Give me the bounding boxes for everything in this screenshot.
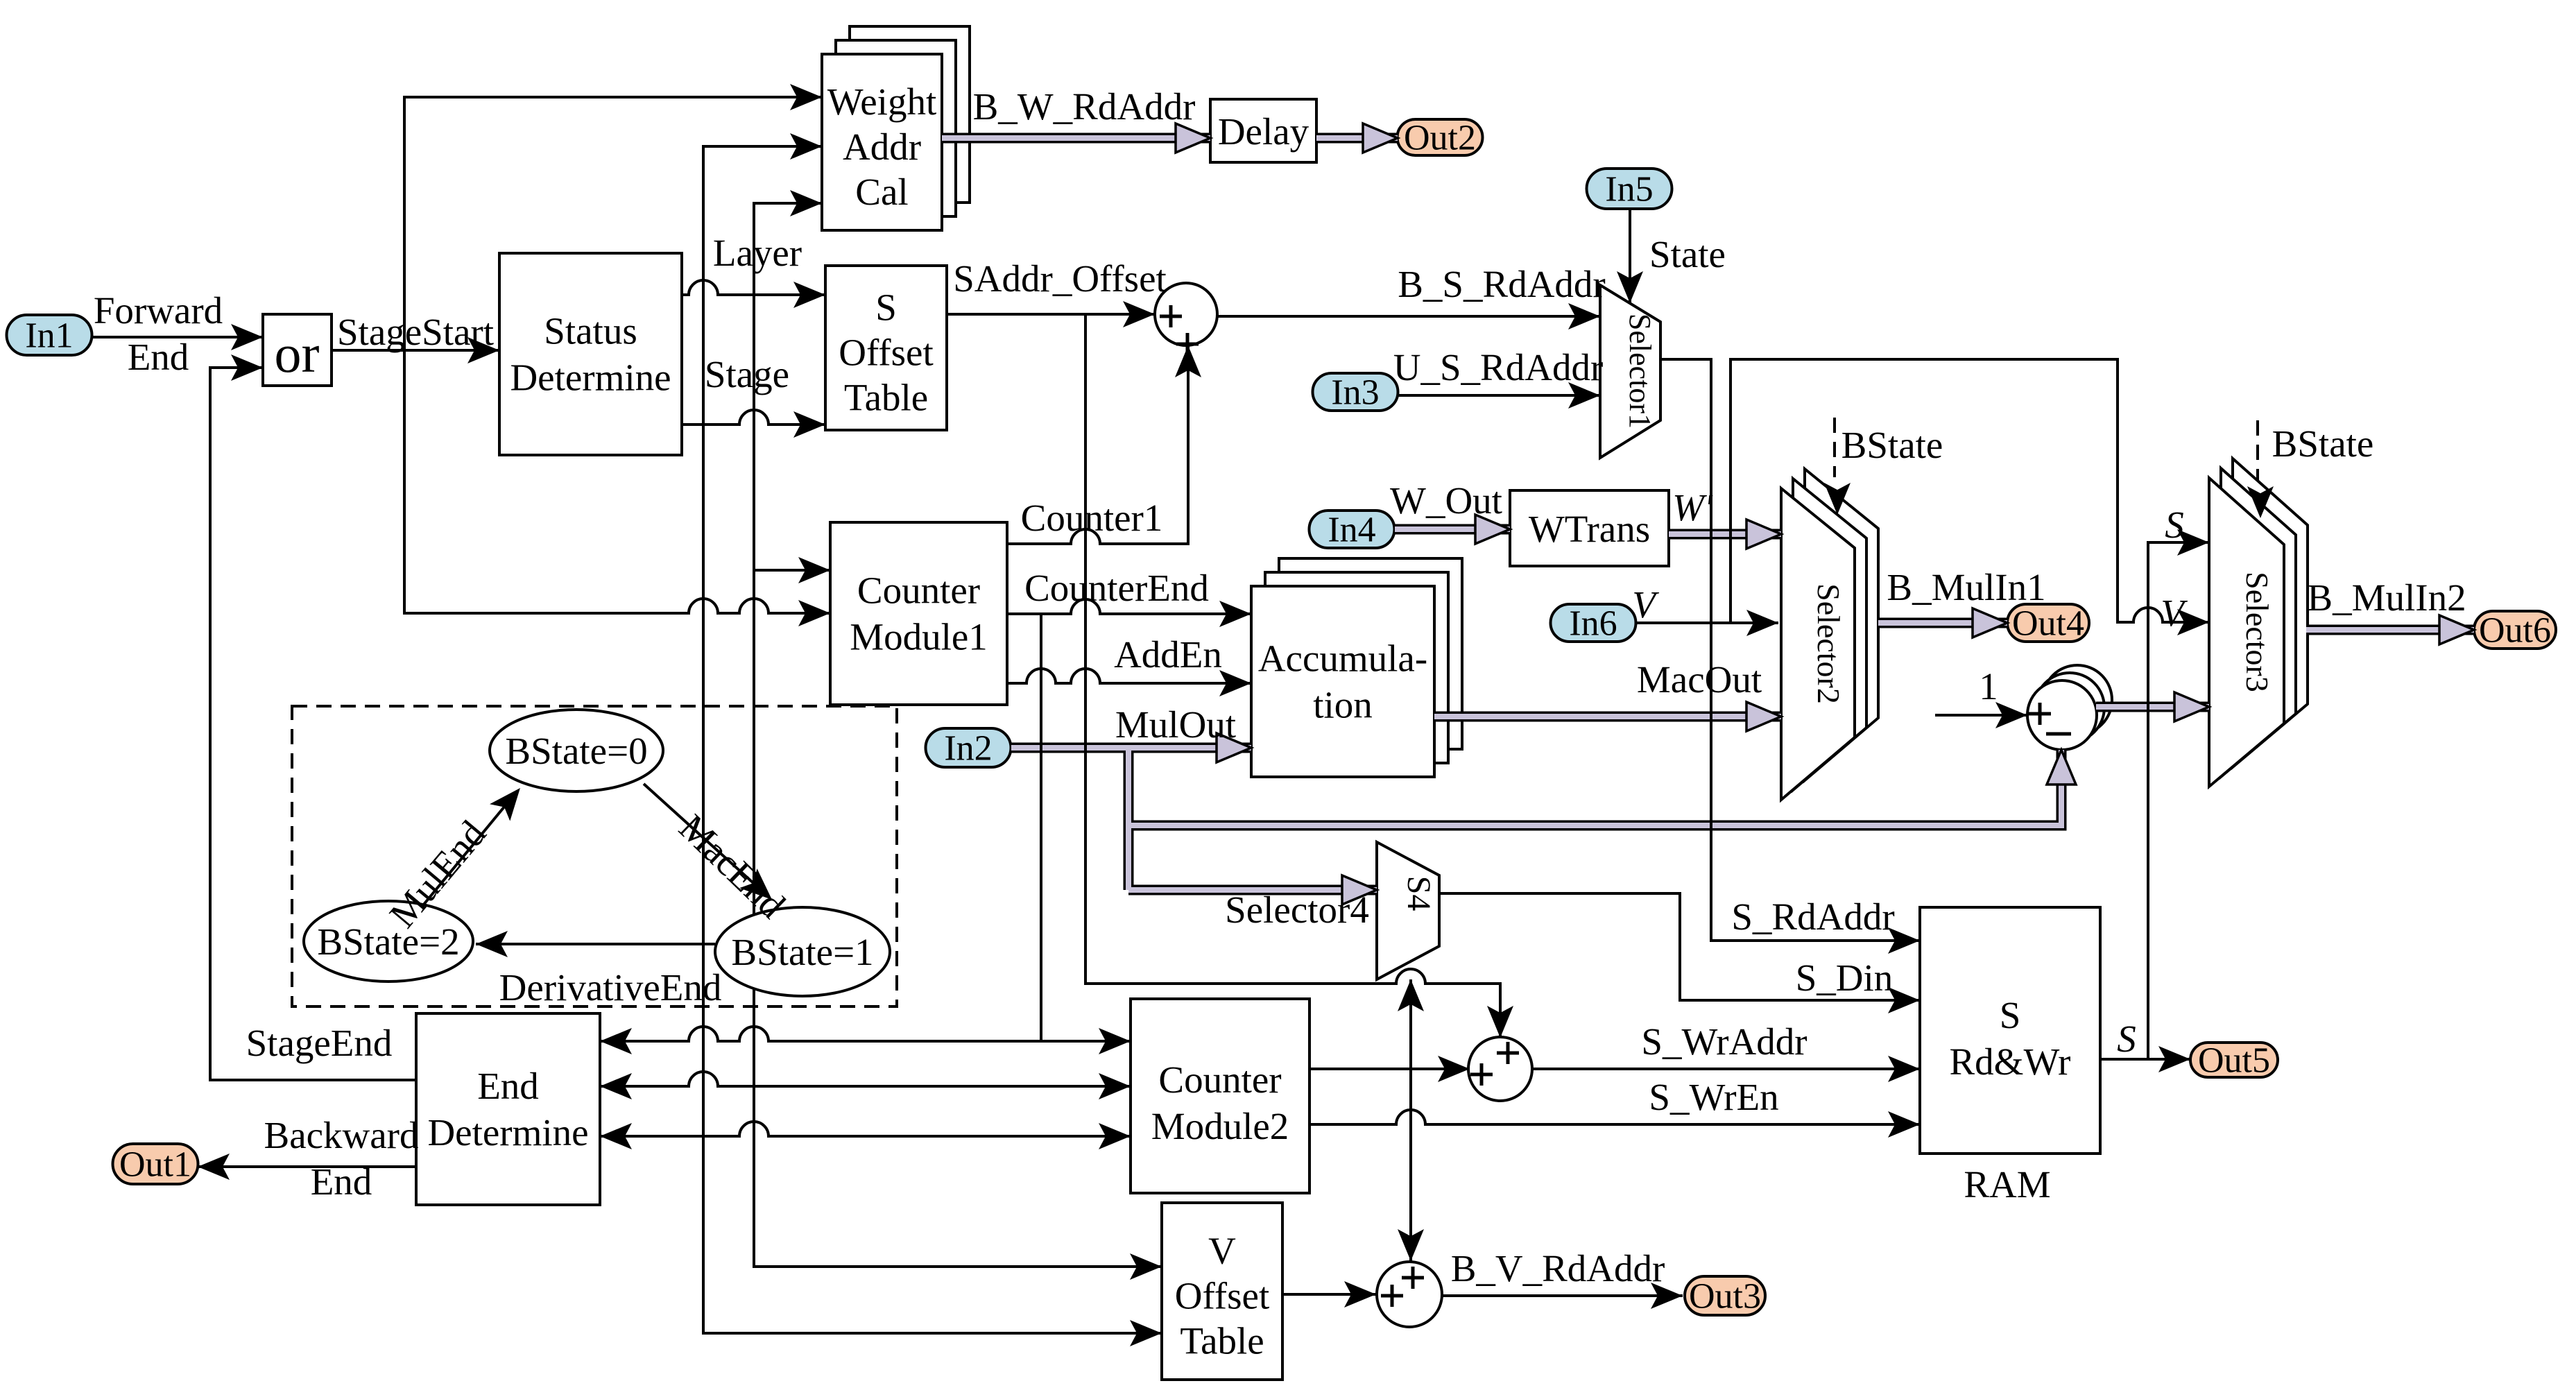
port In2 bbox=[926, 728, 1011, 769]
svg-text:Rd&Wr: Rd&Wr bbox=[1950, 1040, 2071, 1083]
port In6 bbox=[1551, 604, 1636, 644]
label Counter1 bbox=[1021, 497, 1163, 539]
svg-text:Table: Table bbox=[1180, 1320, 1264, 1362]
svg-text:DerivativeEnd: DerivativeEnd bbox=[499, 966, 722, 1009]
block or gate bbox=[263, 314, 332, 386]
label MulEnd bbox=[381, 812, 495, 935]
label StageStart bbox=[337, 311, 494, 353]
svg-text:Out1: Out1 bbox=[119, 1145, 191, 1185]
svg-text:BState=2: BState=2 bbox=[317, 920, 459, 963]
selector Selector3 (stacked) bbox=[2209, 458, 2308, 787]
svg-text:Counter: Counter bbox=[857, 569, 980, 612]
block WTrans bbox=[1510, 490, 1669, 566]
svg-text:Accumula-: Accumula- bbox=[1258, 637, 1427, 680]
port Out4 bbox=[2007, 604, 2089, 644]
label SAddr_Offset bbox=[953, 257, 1167, 300]
port In1 bbox=[7, 315, 92, 356]
label Backward End bbox=[264, 1114, 419, 1203]
wire SAddr_Offset (S Offset Table to adder) bbox=[947, 301, 1155, 327]
port Out5 bbox=[2190, 1041, 2278, 1081]
label DerivativeEnd bbox=[499, 966, 722, 1009]
svg-text:BState=0: BState=0 bbox=[505, 730, 647, 772]
wire S_WrAddr (adder to S Rd&Wr RAM) bbox=[1532, 1056, 1920, 1082]
svg-text:AddEn: AddEn bbox=[1114, 633, 1222, 676]
svg-text:End: End bbox=[477, 1065, 539, 1107]
svg-text:In3: In3 bbox=[1331, 373, 1379, 413]
port In4 bbox=[1310, 511, 1395, 550]
label W_Out bbox=[1390, 479, 1502, 522]
wire CounterEnd (Counter Module1 to Accumulation) bbox=[1007, 599, 1251, 627]
label State bbox=[1649, 233, 1726, 275]
label B_W_RdAddr bbox=[973, 85, 1196, 128]
svg-text:StageEnd: StageEnd bbox=[246, 1022, 393, 1064]
bus B_MulIn2 (Selector3 to Out6) bbox=[2306, 615, 2474, 644]
wire StageStart branch down to Counter Module1 in2 bbox=[404, 350, 830, 613]
svg-text:Delay: Delay bbox=[1218, 110, 1310, 153]
state BState=1 bbox=[715, 907, 890, 996]
label Layer bbox=[713, 232, 802, 274]
block S Offset Table bbox=[825, 266, 947, 430]
label B_MulIn2 bbox=[2307, 576, 2466, 619]
svg-text:Out2: Out2 bbox=[1404, 119, 1476, 158]
svg-text:V: V bbox=[1632, 583, 1659, 626]
port In5 bbox=[1587, 169, 1672, 209]
svg-text:W_Out: W_Out bbox=[1390, 479, 1502, 522]
svg-text:S: S bbox=[2165, 504, 2184, 546]
svg-text:V: V bbox=[2161, 592, 2188, 634]
state BState=2 bbox=[304, 901, 473, 982]
block Delay bbox=[1210, 99, 1316, 162]
svg-text:WTrans: WTrans bbox=[1529, 508, 1650, 550]
wire CounterEnd branch down to End Determine / Counter Module2 bbox=[1040, 614, 1042, 1041]
block V Offset Table bbox=[1162, 1203, 1282, 1380]
svg-text:S_WrEn: S_WrEn bbox=[1649, 1076, 1778, 1118]
svg-text:U_S_RdAddr: U_S_RdAddr bbox=[1393, 346, 1604, 388]
svg-text:S4: S4 bbox=[1400, 876, 1437, 911]
label Selector4 bbox=[1225, 889, 1369, 931]
adder S_WrAddr bbox=[1468, 1037, 1532, 1101]
label S near Selector3 bbox=[2165, 504, 2184, 546]
svg-text:BState: BState bbox=[2272, 422, 2374, 465]
svg-text:B_MulIn2: B_MulIn2 bbox=[2307, 576, 2466, 619]
svg-text:Selector3: Selector3 bbox=[2240, 572, 2275, 692]
wire S_RdAddr (Selector1 to S Rd&Wr RAM) bbox=[1660, 359, 1920, 954]
wire Layer (Status Determine to S Offset Table) bbox=[682, 280, 825, 308]
label S_WrAddr bbox=[1641, 1020, 1807, 1063]
subtractor (stacked) bbox=[2027, 665, 2112, 750]
svg-text:Out4: Out4 bbox=[2012, 604, 2084, 644]
svg-text:1: 1 bbox=[1979, 665, 1998, 708]
svg-text:Stage: Stage bbox=[705, 353, 789, 395]
svg-text:S_WrAddr: S_WrAddr bbox=[1641, 1020, 1807, 1063]
svg-text:In1: In1 bbox=[25, 316, 73, 356]
block End Determine bbox=[416, 1013, 600, 1205]
label V near Selector2 bbox=[1632, 583, 1659, 626]
wire Layer net vertical (to Weight Addr Cal in3, Counter Module1 in1, V Offset Table in1) bbox=[754, 190, 1162, 1280]
block Counter Module2 bbox=[1131, 999, 1310, 1193]
label B_V_RdAddr bbox=[1451, 1247, 1665, 1289]
adder plus signs overlay bbox=[1160, 305, 2071, 1307]
bus B_MulIn1 (Selector2 to Out4) bbox=[1878, 608, 2007, 637]
wire Counter Module2 out1 to S_WrAddr adder bbox=[1310, 1056, 1470, 1082]
svg-text:RAM: RAM bbox=[1964, 1163, 2050, 1206]
label MulOut bbox=[1115, 703, 1236, 746]
selector Selector4 (S4) bbox=[1377, 842, 1439, 979]
block Status Determine bbox=[499, 253, 682, 455]
bus W' (WTrans to Selector2) bbox=[1669, 520, 1781, 549]
label S_WrEn bbox=[1649, 1076, 1778, 1118]
svg-text:In6: In6 bbox=[1569, 604, 1617, 644]
adder SAddr_Offset + Counter1 bbox=[1155, 283, 1217, 355]
wire Stage net vertical (to Weight Addr Cal in2, V Offset Table in2) bbox=[703, 133, 1162, 1346]
label V near Selector3 bbox=[2161, 592, 2188, 634]
svg-text:CounterEnd: CounterEnd bbox=[1024, 567, 1209, 609]
port Out6 bbox=[2474, 611, 2556, 651]
transition MulEnd (BState=2 to BState=0) bbox=[423, 788, 520, 905]
svg-text:Offset: Offset bbox=[839, 332, 933, 374]
wire B_V_RdAddr (adder to Out3) bbox=[1443, 1283, 1683, 1309]
wire row to End Determine in3 and Counter Module2 in3 (Stage) bbox=[600, 1122, 1131, 1149]
svg-text:SAddr_Offset: SAddr_Offset bbox=[953, 257, 1167, 300]
label S_Din bbox=[1796, 957, 1894, 999]
svg-text:Selector1: Selector1 bbox=[1623, 314, 1657, 429]
svg-text:State: State bbox=[1649, 233, 1726, 275]
wire V (In6 to Selector2) bbox=[1637, 610, 1778, 636]
wire row to End Determine in2 and Counter Module2 in2 (Layer) bbox=[600, 1072, 1131, 1099]
wire StageEnd (End Determine to or) bbox=[210, 354, 416, 1080]
wire B_S_RdAddr (adder to Selector1) bbox=[1217, 303, 1600, 329]
label AddEn bbox=[1114, 633, 1222, 676]
svg-text:B_V_RdAddr: B_V_RdAddr bbox=[1451, 1247, 1665, 1289]
svg-text:Out3: Out3 bbox=[1689, 1277, 1761, 1317]
svg-text:B_MulIn1: B_MulIn1 bbox=[1887, 566, 2045, 608]
port Out1 bbox=[113, 1144, 198, 1185]
block Weight Addr Cal (stacked) bbox=[822, 26, 970, 230]
label CounterEnd bbox=[1024, 567, 1209, 609]
wire U_S_RdAddr (In3 to Selector1) bbox=[1398, 382, 1600, 409]
svg-text:S_RdAddr: S_RdAddr bbox=[1731, 895, 1894, 938]
port Out2 bbox=[1398, 119, 1483, 158]
svg-text:Counter: Counter bbox=[1158, 1059, 1281, 1101]
svg-text:Status: Status bbox=[544, 310, 637, 352]
wire StageStart (or to Status Determine) bbox=[332, 337, 499, 363]
svg-text:In2: In2 bbox=[944, 729, 992, 769]
svg-text:MulOut: MulOut bbox=[1115, 703, 1236, 746]
svg-text:Offset: Offset bbox=[1175, 1275, 1269, 1317]
wire Counter1 (Counter Module1 to adder) bbox=[1007, 345, 1201, 544]
bus MulOut net (In2 to Accumulation, subtractor, Selector4) bbox=[1011, 733, 2076, 905]
svg-text:Addr: Addr bbox=[843, 126, 921, 168]
svg-text:End: End bbox=[128, 336, 189, 378]
wire StageStart branch up to Weight Addr Cal in1 bbox=[404, 84, 822, 350]
wire constant 1 to subtractor bbox=[1935, 702, 2027, 728]
svg-text:W′: W′ bbox=[1672, 486, 1713, 529]
svg-text:B_W_RdAddr: B_W_RdAddr bbox=[973, 85, 1196, 128]
wire V branch (In6 to Selector3) bbox=[1731, 359, 2209, 635]
label W' bbox=[1672, 486, 1713, 529]
dashed state-machine box bbox=[292, 706, 897, 1006]
bus W_Out (In4 to WTrans) bbox=[1395, 515, 1510, 544]
svg-text:Module2: Module2 bbox=[1151, 1105, 1289, 1147]
wire Backward End (End Determine to Out1) bbox=[198, 1154, 416, 1180]
wire S_Din (Selector4 to S Rd&Wr RAM) bbox=[1439, 893, 1920, 1013]
port In3 bbox=[1313, 373, 1398, 413]
label MacEnd bbox=[671, 806, 793, 926]
svg-text:In5: In5 bbox=[1605, 170, 1653, 209]
wire V Offset Table out to adder bbox=[1282, 1281, 1376, 1308]
svg-text:Layer: Layer bbox=[713, 232, 802, 274]
bus MacOut (Accumulation to Selector2) bbox=[1434, 702, 1781, 731]
wire Selector4 control / V adder control vertical bbox=[1398, 979, 1424, 1261]
wire SAddr_Offset branch down to S_WrAddr adder bbox=[1085, 314, 1513, 1038]
svg-text:or: or bbox=[275, 323, 320, 384]
svg-text:Table: Table bbox=[844, 377, 928, 419]
svg-text:In4: In4 bbox=[1328, 511, 1375, 550]
label Stage bbox=[705, 353, 789, 395]
label BState near Selector3 bbox=[2272, 422, 2374, 465]
svg-text:BState=1: BState=1 bbox=[731, 931, 873, 973]
selector Selector2 (stacked) bbox=[1781, 469, 1878, 800]
svg-text:Weight: Weight bbox=[827, 80, 936, 123]
wire Forward End (In1 to or) bbox=[92, 324, 263, 350]
svg-text:Selector4: Selector4 bbox=[1225, 889, 1369, 931]
label S_RdAddr bbox=[1731, 895, 1894, 938]
label B_MulIn1 bbox=[1887, 566, 2045, 608]
svg-text:StageStart: StageStart bbox=[337, 311, 494, 353]
transition DerivativeEnd (BState=1 to BState=2) bbox=[476, 931, 715, 957]
wire Stage (Status Determine to S Offset Table) bbox=[682, 410, 825, 438]
bus Delay to Out2 bbox=[1316, 123, 1398, 153]
wire S_WrEn (Counter Module2 to S Rd&Wr RAM) bbox=[1310, 1110, 1920, 1138]
label StageEnd bbox=[246, 1022, 393, 1064]
bus subtractor to Selector3 bbox=[2096, 692, 2209, 721]
label MacOut bbox=[1637, 658, 1762, 701]
svg-text:BState: BState bbox=[1841, 424, 1943, 466]
svg-text:V: V bbox=[1208, 1230, 1236, 1272]
label 1 bbox=[1979, 665, 1998, 708]
arrow into Counter Module1 in2 bbox=[798, 600, 830, 626]
label U_S_RdAddr bbox=[1393, 346, 1604, 388]
svg-text:S: S bbox=[875, 286, 897, 329]
block Accumulation (stacked) bbox=[1251, 558, 1462, 777]
wire row to End Determine in1 and Counter Module2 in1 bbox=[600, 1027, 1131, 1054]
wire AddEn (Counter Module1 to Accumulation) bbox=[1007, 669, 1251, 696]
svg-text:Out6: Out6 bbox=[2479, 611, 2551, 651]
svg-text:Out5: Out5 bbox=[2198, 1041, 2270, 1081]
label RAM bbox=[1964, 1163, 2050, 1206]
port Out3 bbox=[1685, 1276, 1765, 1317]
svg-text:S_Din: S_Din bbox=[1796, 957, 1894, 999]
svg-text:tion: tion bbox=[1313, 684, 1373, 726]
svg-text:Cal: Cal bbox=[855, 171, 908, 213]
wire S branch up to Selector3 bbox=[2148, 529, 2209, 1059]
label S at RAM out bbox=[2117, 1018, 2136, 1060]
svg-text:Backward: Backward bbox=[264, 1114, 419, 1156]
block Counter Module1 bbox=[830, 522, 1007, 705]
svg-text:MacOut: MacOut bbox=[1637, 658, 1762, 701]
control BState to Selector2 bbox=[1824, 418, 1851, 515]
svg-text:Determine: Determine bbox=[510, 357, 671, 399]
label BState near Selector2 bbox=[1841, 424, 1943, 466]
control BState to Selector3 bbox=[2247, 420, 2274, 518]
svg-text:B_S_RdAddr: B_S_RdAddr bbox=[1398, 263, 1606, 305]
svg-text:Selector2: Selector2 bbox=[1811, 583, 1846, 704]
selector Selector1 bbox=[1600, 285, 1660, 458]
bus B_W_RdAddr (Weight Addr Cal to Delay) bbox=[942, 123, 1210, 153]
svg-text:S: S bbox=[2117, 1018, 2136, 1060]
state BState=0 bbox=[490, 710, 663, 791]
wire S (S Rd&Wr RAM to Out5) bbox=[2100, 1046, 2190, 1072]
label B_S_RdAddr bbox=[1398, 263, 1606, 305]
svg-text:Determine: Determine bbox=[427, 1111, 588, 1154]
svg-text:S: S bbox=[2000, 994, 2021, 1036]
svg-text:End: End bbox=[311, 1160, 372, 1203]
transition MacEnd (BState=0 to BState=1) bbox=[644, 784, 772, 900]
adder B_V_RdAddr bbox=[1377, 1262, 1442, 1327]
wire State (In5 to Selector1) bbox=[1617, 208, 1643, 303]
svg-text:Forward: Forward bbox=[94, 289, 223, 332]
block S Rd&Wr RAM bbox=[1920, 907, 2100, 1154]
svg-text:Module1: Module1 bbox=[850, 616, 988, 658]
label Forward End bbox=[94, 289, 223, 378]
svg-text:Counter1: Counter1 bbox=[1021, 497, 1163, 539]
